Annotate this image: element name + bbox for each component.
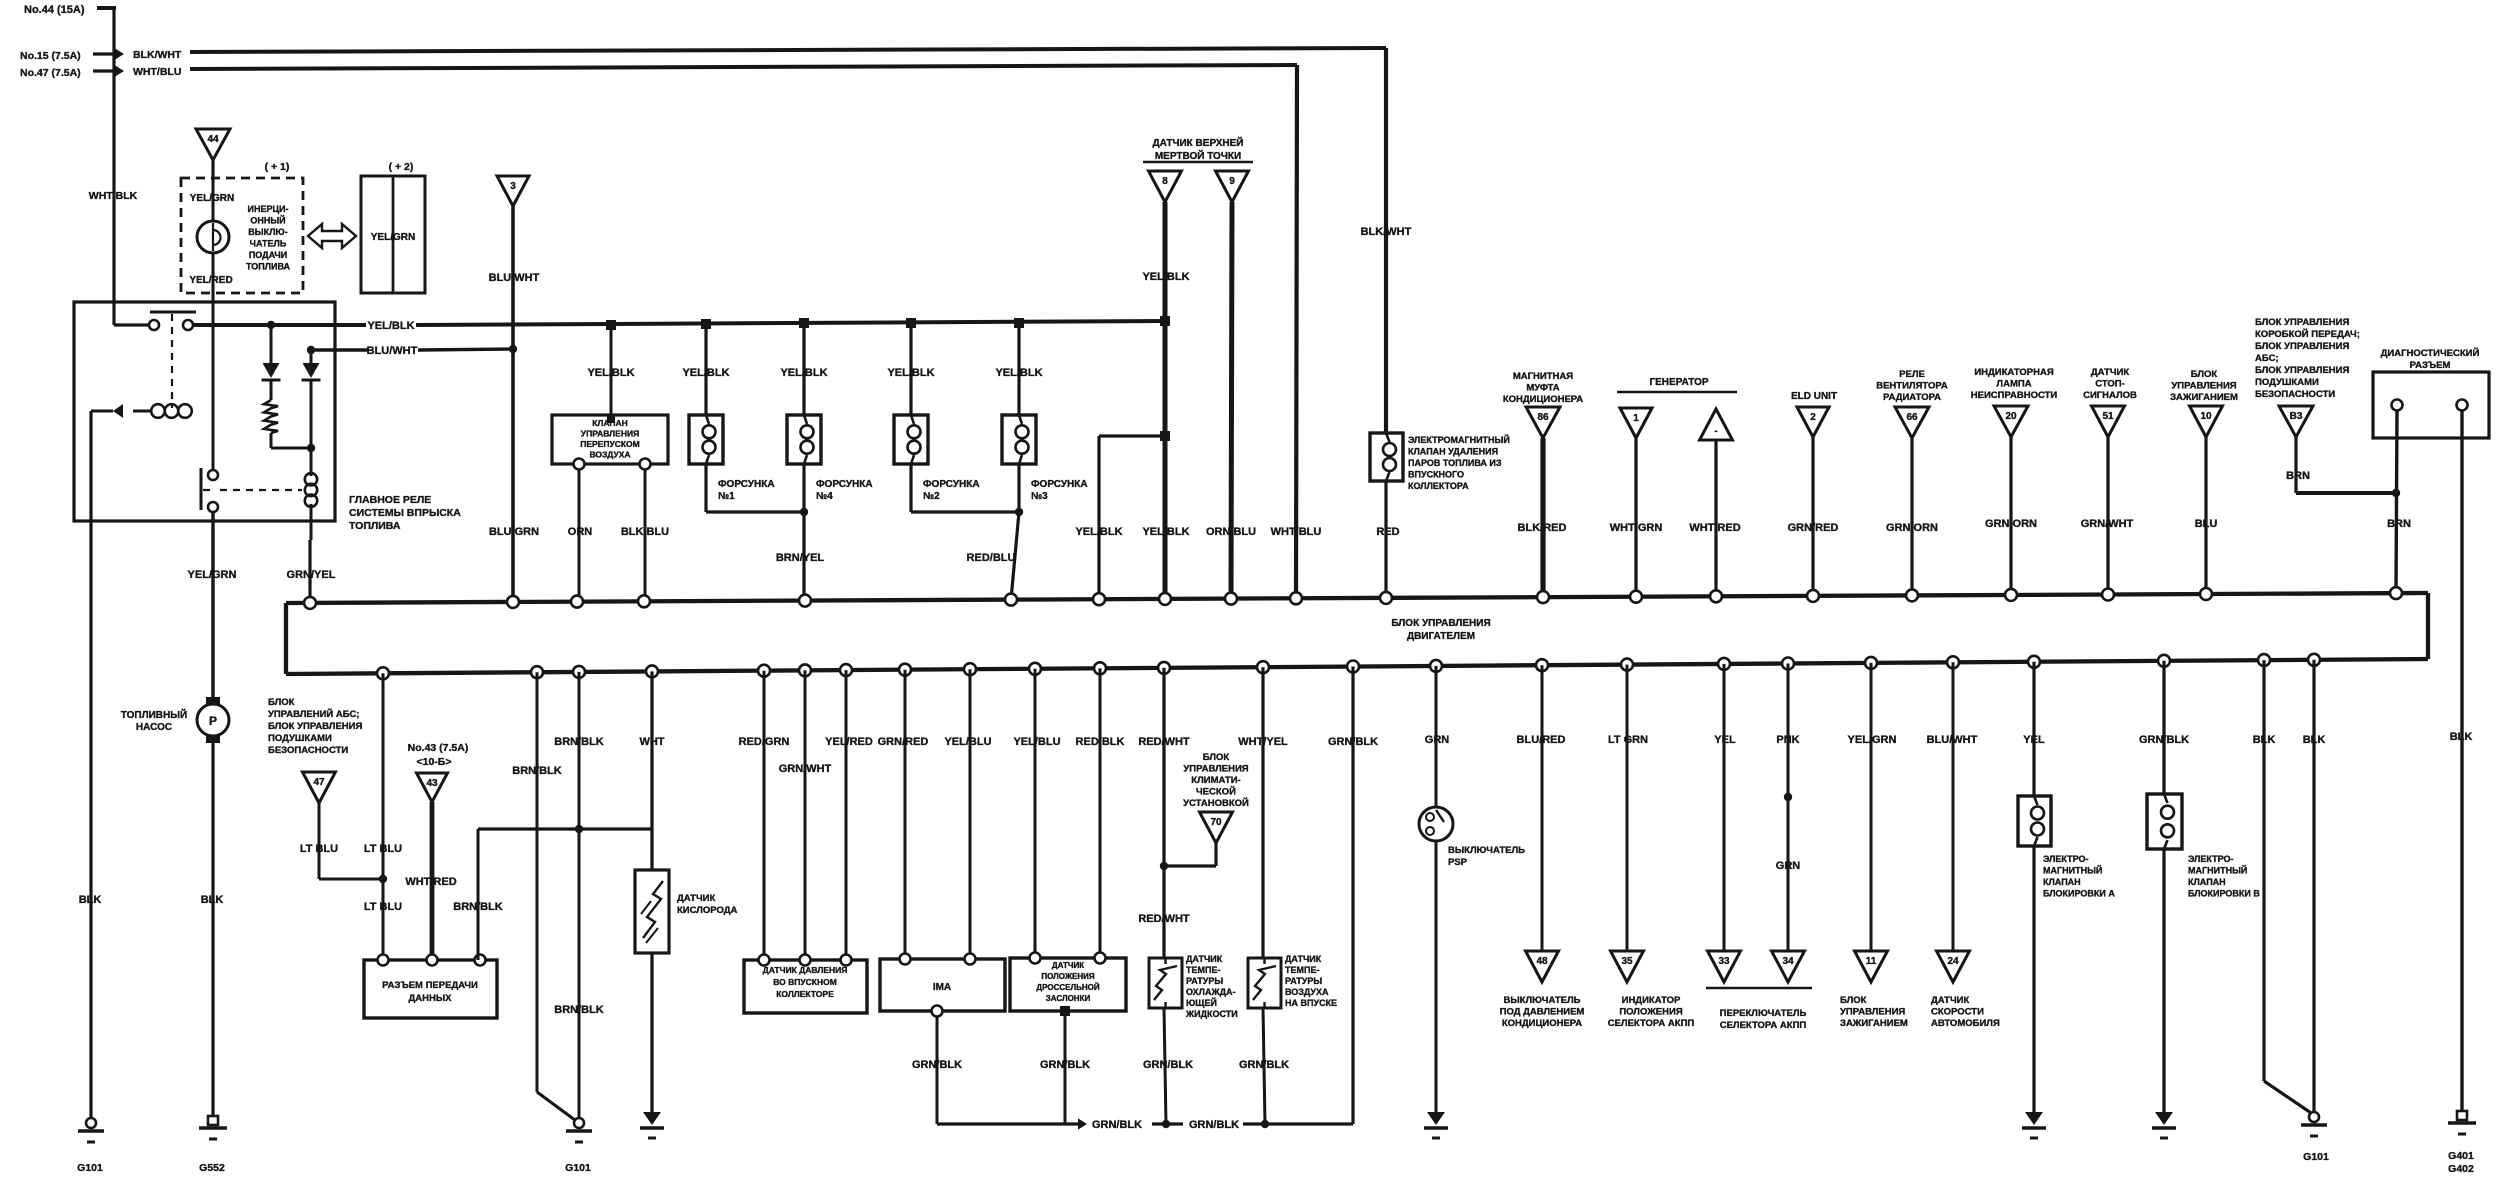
svg-text:БЛОК УПРАВЛЕНИЯ: БЛОК УПРАВЛЕНИЯ: [1391, 618, 1490, 629]
wire WHT/BLK elbow to relay switch: [112, 302, 115, 325]
svg-text:ВПУСКНОГО: ВПУСКНОГО: [1408, 470, 1464, 480]
svg-text:ПОДАЧИ: ПОДАЧИ: [249, 250, 287, 260]
wire BRN/BLK ECU to ground G101: [578, 672, 581, 1120]
wire YEL/BLK bus from relay: [193, 323, 366, 327]
svg-text:ЭЛЕКТРО-: ЭЛЕКТРО-: [2188, 854, 2233, 864]
ECU bottom rail pin x=846: [840, 664, 852, 676]
svg-text:No.44 (15A): No.44 (15A): [24, 4, 85, 16]
svg-text:47: 47: [313, 777, 325, 788]
svg-text:GRN/BLK: GRN/BLK: [912, 1059, 962, 1071]
wire BLU/RED ECU to A/C pressure switch: [1541, 665, 1544, 951]
ECU bottom rail pin x=1871: [1865, 657, 1877, 669]
ECU top rail pin x=2206: [2200, 588, 2212, 600]
ECU bottom rail pin x=1627: [1621, 659, 1633, 671]
svg-text:43: 43: [426, 778, 438, 789]
svg-text:20: 20: [2005, 411, 2017, 422]
svg-text:YEL/RED: YEL/RED: [825, 736, 873, 748]
svg-text:YEL/BLK: YEL/BLK: [1142, 526, 1189, 538]
svg-text:ЛАМПА: ЛАМПА: [1996, 379, 2031, 390]
wire BLU/WHT ECU to vehicle speed sensor: [1952, 662, 1955, 951]
svg-text:BLK/RED: BLK/RED: [1518, 522, 1567, 534]
svg-text:ГЛАВНОЕ РЕЛЕ: ГЛАВНОЕ РЕЛЕ: [349, 494, 431, 506]
svg-text:RED/BLK: RED/BLK: [1076, 736, 1125, 748]
svg-text:YEL/GRN: YEL/GRN: [188, 569, 237, 581]
relay switch 1 contacts: [149, 320, 159, 330]
wire BLK ECU diagonal to ground: [2262, 660, 2265, 1081]
svg-text:БЛОК УПРАВЛЕНИЯ: БЛОК УПРАВЛЕНИЯ: [2255, 317, 2349, 328]
ECU bottom rail pin x=383: [377, 667, 389, 679]
ECU top rail pin x=1912: [1906, 589, 1918, 601]
injector №3 coil box: [1002, 415, 1036, 464]
svg-text:YEL: YEL: [1714, 734, 1736, 746]
wire GRN/BLK from TPS: [1064, 1011, 1067, 1124]
ECU top rail pin x=1165: [1159, 593, 1171, 605]
svg-text:GRN/BLK: GRN/BLK: [1189, 1119, 1239, 1131]
wire GRN/ORN MIL to ECU: [2009, 437, 2012, 595]
ECU bottom rail: [286, 659, 2428, 674]
svg-text:( + 2): ( + 2): [389, 161, 414, 173]
svg-text:WHT/RED: WHT/RED: [405, 876, 456, 888]
svg-text:No.47 (7.5A): No.47 (7.5A): [20, 67, 81, 79]
ground G101 left: [86, 1118, 96, 1128]
svg-text:WHT/GRN: WHT/GRN: [1610, 522, 1663, 534]
svg-text:ДАТЧИК: ДАТЧИК: [677, 893, 715, 904]
relay switch 1 dashed actuator: [171, 314, 173, 408]
svg-text:3: 3: [510, 181, 516, 192]
svg-text:ДИАГНОСТИЧЕСКИЙ: ДИАГНОСТИЧЕСКИЙ: [2381, 347, 2480, 359]
svg-text:МАГНИТНЫЙ: МАГНИТНЫЙ: [2188, 865, 2247, 876]
svg-text:МЕРТВОЙ ТОЧКИ: МЕРТВОЙ ТОЧКИ: [1155, 149, 1241, 162]
wire RED/WHT ECU to ECT sensor: [1162, 668, 1165, 958]
svg-text:BLU/WHT: BLU/WHT: [1927, 734, 1978, 746]
svg-text:ДАТЧИК: ДАТЧИК: [1052, 961, 1084, 970]
wire YEL/RED from inertia switch to relay switch: [212, 302, 215, 469]
svg-text:YEL/GRN: YEL/GRN: [1848, 734, 1897, 746]
svg-text:ВЫКЛЮ-: ВЫКЛЮ-: [248, 227, 287, 237]
connector B3 triangle: [2279, 406, 2313, 437]
svg-text:BLK/BLU: BLK/BLU: [621, 526, 669, 538]
svg-text:ЗАЖИГАНИЕМ: ЗАЖИГАНИЕМ: [2170, 392, 2238, 403]
svg-text:ЧАТЕЛЬ: ЧАТЕЛЬ: [250, 239, 287, 249]
svg-text:ПОДУШКАМИ: ПОДУШКАМИ: [2255, 377, 2319, 388]
svg-text:51: 51: [2102, 411, 2114, 422]
svg-text:RED/WHT: RED/WHT: [1138, 736, 1190, 748]
svg-text:BLU/RED: BLU/RED: [1517, 734, 1566, 746]
svg-text:34: 34: [1782, 956, 1794, 967]
injector №3 wire YEL/BLK: [1014, 318, 1024, 328]
connector 2 triangle ELD: [1797, 407, 1829, 437]
svg-text:КЛАПАН: КЛАПАН: [2043, 877, 2081, 887]
svg-text:RED: RED: [1376, 526, 1399, 538]
svg-text:YEL/GRN: YEL/GRN: [371, 232, 415, 243]
svg-text:1: 1: [1633, 413, 1639, 424]
svg-text:WHT/YEL: WHT/YEL: [1238, 736, 1288, 748]
connector 43 triangle: [417, 773, 448, 802]
svg-text:WHT/BLU: WHT/BLU: [1271, 526, 1322, 538]
purge control solenoid valve: [1384, 48, 1388, 433]
svg-text:33: 33: [1718, 956, 1730, 967]
svg-text:АВТОМОБИЛЯ: АВТОМОБИЛЯ: [1931, 1018, 2000, 1029]
svg-text:11: 11: [1866, 956, 1877, 967]
oxygen sensor box: [635, 870, 669, 953]
throttle position sensor box: [1010, 958, 1126, 1011]
svg-text:ВЫКЛЮЧАТЕЛЬ: ВЫКЛЮЧАТЕЛЬ: [1504, 995, 1581, 1006]
IMA wires: [904, 670, 907, 959]
wire WHT/BLU fuse line: [190, 65, 1297, 69]
svg-text:МУФТА: МУФТА: [1526, 383, 1559, 394]
svg-text:БЛОК УПРАВЛЕНИЯ: БЛОК УПРАВЛЕНИЯ: [2255, 341, 2349, 352]
svg-text:ФОРСУНКА: ФОРСУНКА: [1031, 479, 1088, 490]
diode D1 from YEL/BLK bus: [267, 321, 275, 329]
ECU top rail pin x=1543: [1537, 591, 1549, 603]
svg-text:СТОП-: СТОП-: [2095, 379, 2125, 390]
svg-text:МАГНИТНЫЙ: МАГНИТНЫЙ: [2043, 865, 2102, 876]
ECU bottom rail pin x=2314: [2308, 654, 2320, 666]
wire 44 to inertia switch: [211, 160, 214, 180]
svg-text:BLU/GRN: BLU/GRN: [489, 526, 539, 538]
svg-text:BRN/BLK: BRN/BLK: [453, 901, 503, 913]
connector 70 triangle climate control: [1200, 812, 1233, 843]
svg-text:ИНЕРЦИ-: ИНЕРЦИ-: [247, 204, 288, 214]
svg-text:10: 10: [2200, 411, 2212, 422]
svg-text:G401: G401: [2448, 1150, 2474, 1162]
svg-text:БЛОК: БЛОК: [1840, 995, 1867, 1006]
connector 47 triangle ABS: [303, 772, 336, 803]
svg-text:ФОРСУНКА: ФОРСУНКА: [923, 479, 980, 490]
svg-text:РАДИАТОРА: РАДИАТОРА: [1883, 392, 1941, 403]
svg-text:ВЕНТИЛЯТОРА: ВЕНТИЛЯТОРА: [1876, 381, 1948, 392]
relay switch 2 contacts: [200, 468, 203, 510]
svg-text:2: 2: [1810, 412, 1816, 423]
MAP sensor wires: [763, 671, 766, 960]
wire BRN elbow to diagnostic branch: [2294, 437, 2297, 493]
svg-text:BLU: BLU: [2195, 518, 2218, 530]
ECU top rail pin x=1231: [1225, 593, 1237, 605]
svg-text:YEL/BLK: YEL/BLK: [587, 367, 634, 379]
svg-text:WHT: WHT: [639, 736, 664, 748]
ground solenoid B: [2155, 1112, 2173, 1125]
svg-text:ELD UNIT: ELD UNIT: [1791, 391, 1837, 402]
svg-text:66: 66: [1906, 412, 1918, 423]
injector №4 coil box: [787, 415, 821, 464]
svg-text:BLU/WHT: BLU/WHT: [489, 272, 540, 284]
svg-text:ВОЗДУХА: ВОЗДУХА: [1285, 987, 1329, 997]
svg-text:P: P: [209, 714, 217, 728]
svg-text:BRN: BRN: [2387, 518, 2411, 530]
svg-text:КЛИМАТИ-: КЛИМАТИ-: [1191, 775, 1240, 786]
ECU top rail pin x=1011: [1005, 594, 1017, 606]
svg-text:ПОЛОЖЕНИЯ: ПОЛОЖЕНИЯ: [1619, 1007, 1683, 1018]
ECU top rail pin x=1386: [1380, 592, 1392, 604]
injector №1 wire YEL/BLK: [701, 319, 711, 329]
coolant temperature sensor box: [1149, 958, 1182, 1008]
connector 44 triangle: [196, 129, 230, 160]
injector №2 coil box: [894, 415, 928, 464]
ECU bottom rail pin x=764: [758, 665, 770, 677]
wire injectors 1+4 join BRN/YEL: [704, 464, 707, 512]
ECU bottom rail pin x=1353: [1347, 661, 1359, 673]
ECU top rail pin x=1813: [1807, 590, 1819, 602]
wire LT BLU from 47: [318, 803, 321, 879]
svg-text:СИСТЕМЫ ВПРЫСКА: СИСТЕМЫ ВПРЫСКА: [349, 507, 461, 519]
injector №2 wire YEL/BLK: [906, 318, 916, 328]
wire solenoid A to ground: [2032, 846, 2035, 1112]
svg-text:YEL/BLK: YEL/BLK: [995, 367, 1042, 379]
svg-text:СЕЛЕКТОРА АКПП: СЕЛЕКТОРА АКПП: [1720, 1020, 1807, 1031]
svg-text:ДАТЧИК ВЕРХНЕЙ: ДАТЧИК ВЕРХНЕЙ: [1153, 136, 1244, 149]
connector 1 triangle generator: [1620, 408, 1652, 438]
svg-text:LT BLU: LT BLU: [300, 843, 338, 855]
wire GRN/ORN to ECU: [1910, 438, 1913, 595]
svg-text:PSP: PSP: [1448, 857, 1468, 868]
wire WHT/YEL ECU to IAT sensor: [1261, 667, 1264, 958]
ECU top rail pin x=513: [507, 596, 519, 608]
ECU top rail pin x=1099: [1093, 593, 1105, 605]
svg-text:ТОПЛИВНЫЙ: ТОПЛИВНЫЙ: [121, 708, 187, 721]
ECU bottom rail pin x=1953: [1947, 656, 1959, 668]
wire YEL ECU to selector switch: [1723, 664, 1726, 951]
ECU bottom rail pin x=2164: [2158, 655, 2170, 667]
svg-text:БЛОК УПРАВЛЕНИЯ: БЛОК УПРАВЛЕНИЯ: [2255, 365, 2349, 376]
wire BLK ECU to ground G101 right: [2312, 660, 2315, 1113]
svg-text:ДАТЧИК: ДАТЧИК: [1931, 995, 1969, 1006]
svg-text:ИНДИКАТОРНАЯ: ИНДИКАТОРНАЯ: [1974, 367, 2053, 378]
svg-text:КЛАПАН УДАЛЕНИЯ: КЛАПАН УДАЛЕНИЯ: [1408, 447, 1498, 457]
wire PSP to ground: [1435, 841, 1438, 1112]
svg-text:БЛОК: БЛОК: [268, 697, 295, 708]
svg-text:СЕЛЕКТОРА АКПП: СЕЛЕКТОРА АКПП: [1608, 1018, 1695, 1029]
wire YEL/GRN relay output to fuel pump: [211, 513, 214, 697]
svg-text:35: 35: [1621, 956, 1633, 967]
ECU top rail pin x=805: [799, 595, 811, 607]
ECU top rail pin x=577: [571, 596, 583, 608]
connector 66 triangle fan relay: [1895, 407, 1929, 438]
svg-text:GRN/BLK: GRN/BLK: [1092, 1119, 1142, 1131]
valve output wires ORN and BLK/BLU: [574, 459, 585, 470]
svg-text:YEL: YEL: [2023, 734, 2045, 746]
svg-text:ДАТЧИК: ДАТЧИК: [1285, 954, 1322, 964]
svg-text:YEL/BLU: YEL/BLU: [1013, 736, 1060, 748]
ground G101 center: [574, 1118, 584, 1128]
svg-text:ДАТЧИК: ДАТЧИК: [2091, 367, 2129, 378]
ECU top rail pin x=2396: [2390, 587, 2402, 599]
wire GRN/BLK from ECT: [1164, 1008, 1166, 1124]
svg-text:GRN/RED: GRN/RED: [1788, 522, 1839, 534]
svg-text:РЕЛЕ: РЕЛЕ: [1899, 369, 1925, 380]
wire GRN/BLK ECU right branch: [1351, 667, 1354, 1125]
svg-text:GRN/YEL: GRN/YEL: [287, 569, 336, 581]
svg-text:БЛОКИРОВКИ В: БЛОКИРОВКИ В: [2188, 889, 2260, 899]
wire BLK/RED to ECU: [1540, 438, 1545, 597]
ground solenoid A: [2025, 1112, 2043, 1125]
wire RED purge valve to ECU: [1384, 481, 1387, 598]
ECU top rail pin x=644: [638, 595, 650, 607]
connector 24 triangle vehicle speed sensor: [1937, 951, 1970, 982]
ECU bottom rail pin x=1263: [1257, 661, 1269, 673]
svg-text:НАСОС: НАСОС: [136, 722, 172, 733]
ground G552: [208, 1116, 218, 1125]
svg-text:GRN/BLK: GRN/BLK: [1040, 1059, 1090, 1071]
svg-text:( + 1): ( + 1): [265, 161, 290, 173]
svg-text:ФОРСУНКА: ФОРСУНКА: [816, 479, 873, 490]
svg-text:ПЕРЕПУСКОМ: ПЕРЕПУСКОМ: [580, 439, 640, 449]
svg-text:БЕЗОПАСНОСТИ: БЕЗОПАСНОСТИ: [2255, 389, 2335, 400]
svg-text:GRN/BLK: GRN/BLK: [1143, 1059, 1193, 1071]
wire WHT/BLU from fuse to ECU: [1296, 65, 1297, 598]
svg-text:GRN/WHT: GRN/WHT: [2081, 518, 2134, 530]
ECU bottom rail pin x=2264: [2258, 654, 2270, 666]
svg-text:IMA: IMA: [933, 982, 951, 993]
svg-text:ORN: ORN: [568, 526, 593, 538]
svg-text:G101: G101: [565, 1162, 591, 1174]
ground G101 right: [2309, 1112, 2319, 1122]
svg-text:ЮЩЕЙ: ЮЩЕЙ: [1186, 997, 1217, 1008]
wire LT GRN ECU to gear position indicator: [1626, 665, 1629, 951]
wire injectors 2+3 join RED/BLU: [909, 464, 912, 512]
wire BRN/BLK horizontal link: [478, 827, 652, 830]
connector 10 triangle ignition: [2190, 406, 2223, 437]
wire LT BLU ECU to data link connector: [382, 673, 385, 960]
wire BRN/BLK ECU to ground diagonal: [536, 672, 539, 1092]
svg-text:ГЕНЕРАТОР: ГЕНЕРАТОР: [1649, 377, 1708, 388]
connector 3 triangle: [497, 176, 529, 206]
ECU bottom rail pin x=1542: [1536, 659, 1548, 671]
svg-text:YEL/BLK: YEL/BLK: [1075, 526, 1122, 538]
ECU bottom rail pin x=1164: [1158, 662, 1170, 674]
ECU bottom rail pin x=805: [799, 664, 811, 676]
intake air temperature sensor box: [1248, 958, 1281, 1008]
svg-text:РАТУРЫ: РАТУРЫ: [1186, 976, 1223, 986]
svg-text:ЖИДКОСТИ: ЖИДКОСТИ: [1185, 1009, 1238, 1019]
svg-text:ПОДУШКАМИ: ПОДУШКАМИ: [268, 733, 332, 744]
wire GRN/YEL relay coil to ECU: [308, 540, 311, 603]
svg-text:48: 48: [1536, 956, 1548, 967]
svg-text:УПРАВЛЕНИЯ: УПРАВЛЕНИЯ: [581, 429, 639, 439]
wire ORN/BLU TDC-9 to ECU: [1231, 202, 1232, 599]
MAP sensor box: [744, 960, 867, 1013]
svg-text:GRN/WHT: GRN/WHT: [779, 763, 832, 775]
svg-text:BRN/YEL: BRN/YEL: [776, 552, 825, 564]
ECU bottom rail pin x=1035: [1029, 663, 1041, 675]
ECU bottom rail pin x=1100: [1094, 662, 1106, 674]
wire YEL/BLK branch elbow: [1099, 434, 1165, 437]
svg-text:КОРОБКОЙ ПЕРЕДАЧ;: КОРОБКОЙ ПЕРЕДАЧ;: [2255, 328, 2360, 340]
wire WHT ECU to oxygen sensor: [650, 671, 653, 870]
svg-text:WHT/RED: WHT/RED: [1689, 522, 1740, 534]
svg-text:УПРАВЛЕНИЯ: УПРАВЛЕНИЯ: [1840, 1007, 1905, 1018]
svg-text:GRN/BLK: GRN/BLK: [2139, 734, 2189, 746]
IMA box: [880, 959, 1005, 1011]
svg-text:No.15 (7.5A): No.15 (7.5A): [20, 50, 81, 62]
svg-text:GRN/RED: GRN/RED: [878, 736, 929, 748]
svg-text:ТОПЛИВА: ТОПЛИВА: [349, 520, 401, 532]
ECU top rail pin x=310: [304, 597, 316, 609]
svg-text:БЛОК УПРАВЛЕНИЯ: БЛОК УПРАВЛЕНИЯ: [268, 721, 362, 732]
injector №4 wire YEL/BLK: [799, 318, 809, 328]
svg-text:G101: G101: [2303, 1151, 2329, 1163]
svg-text:ТОПЛИВА: ТОПЛИВА: [246, 262, 291, 272]
svg-text:БЛОКИРОВКИ А: БЛОКИРОВКИ А: [2043, 889, 2115, 899]
svg-text:GRN: GRN: [1425, 734, 1450, 746]
svg-text:G552: G552: [199, 1162, 225, 1174]
svg-text:GRN: GRN: [1776, 860, 1801, 872]
svg-text:№3: №3: [1031, 491, 1048, 502]
lockup solenoid valve A: [2018, 796, 2051, 846]
svg-text:BRN/BLK: BRN/BLK: [554, 1004, 604, 1016]
svg-text:WHT/BLU: WHT/BLU: [133, 66, 181, 78]
wire GRN/BLK common ground bus: [937, 1122, 1083, 1125]
main fuel injection relay box: [74, 302, 335, 521]
svg-text:GRN/ORN: GRN/ORN: [1985, 518, 2037, 530]
air bypass control valve box: [552, 415, 668, 464]
injector №1 coil box: [689, 415, 723, 464]
connector 20 triangle MIL: [1994, 406, 2028, 437]
ECU bottom rail pin x=537: [531, 666, 543, 678]
svg-text:КОНДИЦИОНЕРА: КОНДИЦИОНЕРА: [1503, 394, 1583, 405]
svg-text:BLK: BLK: [201, 894, 224, 906]
svg-text:ТЕМПЕ-: ТЕМПЕ-: [1285, 965, 1319, 975]
wire YEL ECU to lockup solenoid A: [2032, 662, 2035, 796]
ECU left edge: [284, 603, 288, 674]
wire GRN/BLK ECU to lockup solenoid B: [2162, 661, 2165, 794]
ECU engine control unit top rail: [286, 593, 2428, 603]
svg-text:№4: №4: [816, 491, 833, 502]
svg-text:УПРАВЛЕНИЙ АБС;: УПРАВЛЕНИЙ АБС;: [268, 708, 359, 720]
svg-text:КЛАПАН: КЛАПАН: [2188, 877, 2226, 887]
svg-text:BLK: BLK: [2253, 734, 2276, 746]
svg-text:БЛОК: БЛОК: [2191, 369, 2218, 380]
svg-text:YEL/BLK: YEL/BLK: [887, 367, 934, 379]
wire solenoid B to ground: [2162, 849, 2165, 1112]
svg-text:КОЛЛЕКТОРА: КОЛЛЕКТОРА: [1408, 481, 1469, 491]
svg-text:НЕИСПРАВНОСТИ: НЕИСПРАВНОСТИ: [1971, 390, 2058, 401]
svg-text:ФОРСУНКА: ФОРСУНКА: [718, 479, 775, 490]
svg-text:КОЛЛЕКТОРЕ: КОЛЛЕКТОРЕ: [776, 989, 834, 999]
svg-text:BLK: BLK: [2450, 731, 2473, 743]
svg-text:BLK/WHT: BLK/WHT: [133, 49, 182, 61]
svg-text:<10-Б>: <10-Б>: [417, 756, 452, 768]
ECU right edge: [2426, 593, 2430, 659]
svg-text:ИНДИКАТОР: ИНДИКАТОР: [1622, 995, 1681, 1006]
throttle position sensor wires: [1034, 669, 1037, 958]
lockup solenoid valve B: [2147, 794, 2182, 849]
selector switch label: [1706, 987, 1812, 990]
ground PSP: [1427, 1112, 1445, 1125]
relay coil 1 horizontal with diode arrow: [151, 404, 165, 418]
svg-text:BLU/WHT: BLU/WHT: [367, 345, 418, 357]
svg-text:РАЗЪЕМ ПЕРЕДАЧИ: РАЗЪЕМ ПЕРЕДАЧИ: [382, 980, 478, 991]
connector 34 triangle selector switch: [1772, 951, 1805, 982]
connector 9 triangle TDC: [1216, 171, 1249, 202]
connector 51 triangle brake switch: [2092, 406, 2125, 437]
ECU bottom rail pin x=905: [899, 664, 911, 676]
svg-text:№2: №2: [923, 491, 940, 502]
wire BLK fuel pump to ground G552: [211, 743, 214, 1118]
svg-text:G101: G101: [77, 1162, 103, 1174]
svg-text:ПАРОВ ТОПЛИВА ИЗ: ПАРОВ ТОПЛИВА ИЗ: [1408, 458, 1502, 468]
wire BLK relay to ground G101: [89, 411, 92, 1120]
PSP switch wire GRN: [1435, 666, 1438, 807]
ground oxygen sensor: [643, 1112, 661, 1125]
svg-text:ЗАСЛОНКИ: ЗАСЛОНКИ: [1046, 994, 1091, 1003]
ECU bottom rail pin x=2034: [2028, 656, 2040, 668]
connector 11 triangle ignition control: [1855, 951, 1888, 982]
svg-text:ЗАЖИГАНИЕМ: ЗАЖИГАНИЕМ: [1840, 1018, 1908, 1029]
svg-text:БЕЗОПАСНОСТИ: БЕЗОПАСНОСТИ: [268, 745, 348, 756]
ECU top rail pin x=1636: [1630, 591, 1642, 603]
alternator triangle symbol: [1700, 409, 1733, 440]
svg-text:БЛОК: БЛОК: [1203, 752, 1230, 763]
